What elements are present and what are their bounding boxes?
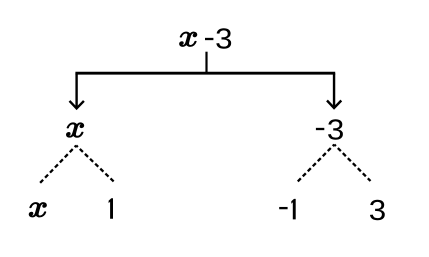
- svg-text:3: 3: [215, 24, 232, 56]
- svg-text:3: 3: [327, 114, 344, 146]
- svg-text:3: 3: [369, 195, 386, 227]
